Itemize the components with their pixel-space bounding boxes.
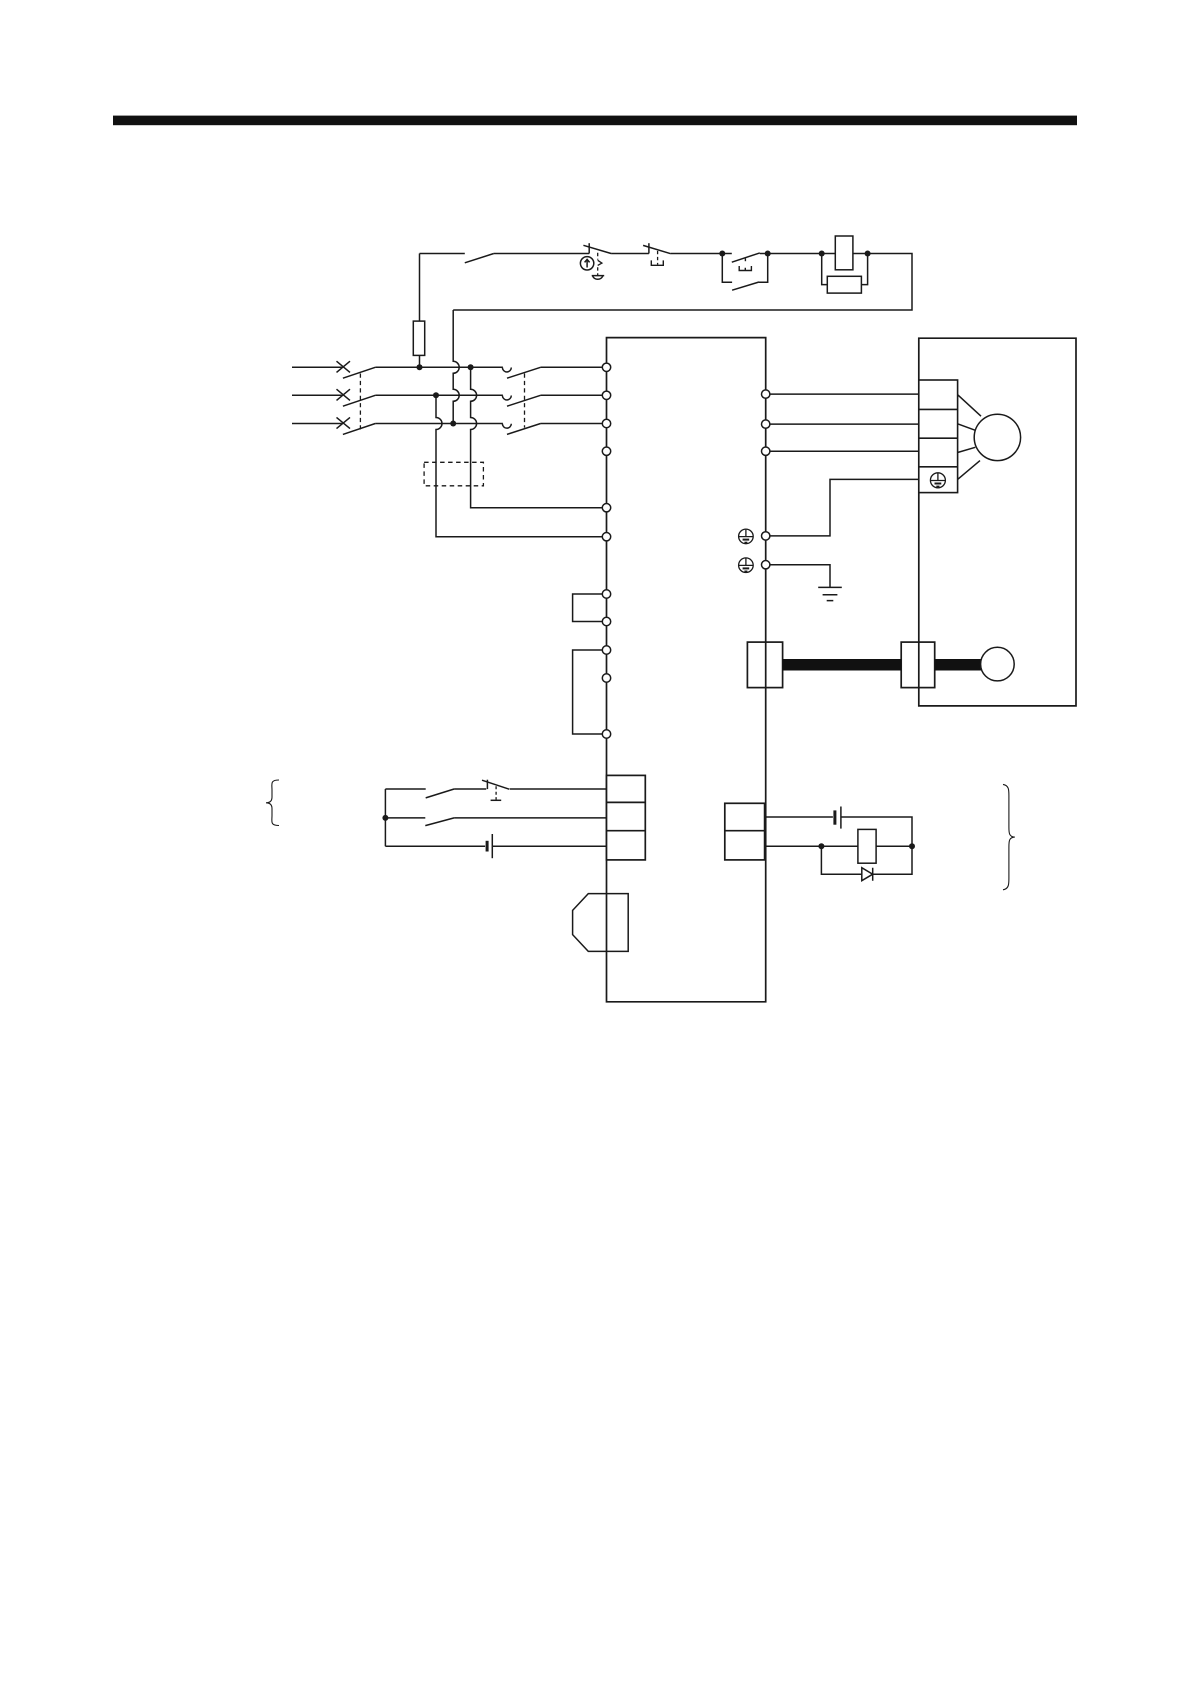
NFB pole 2 X symbol bbox=[337, 389, 351, 400]
input wire 1 segment 2 bbox=[454, 788, 486, 790]
phase L2 wire to amp bbox=[541, 394, 603, 396]
phase L2 input wire bbox=[292, 394, 342, 396]
MC pole 1 fixed contact bbox=[502, 368, 511, 372]
MC aux lower blade bbox=[732, 282, 759, 290]
wire: rail segment 2 bbox=[494, 253, 589, 255]
terminal U bbox=[762, 390, 770, 398]
contact 2 bar bbox=[648, 243, 650, 253]
motor fan-in line 4 bbox=[958, 461, 980, 480]
24V battery negative plate bbox=[833, 810, 836, 824]
NFB pole 3 X symbol bbox=[337, 417, 351, 428]
surge absorber bbox=[827, 276, 861, 293]
terminal L11 lower bbox=[602, 730, 610, 738]
servo amplifier outline bbox=[607, 338, 766, 1002]
emergency stop operator dashed link bbox=[597, 253, 599, 275]
MC aux lower branch wire bbox=[722, 254, 732, 283]
servo motor box bbox=[919, 338, 1076, 706]
NFB pole 2 blade bbox=[343, 395, 375, 406]
motor fan-in line 1 bbox=[958, 395, 981, 417]
node: junction dot on phase 3 bbox=[450, 421, 456, 427]
terminal L1 bbox=[602, 363, 610, 371]
terminal V bbox=[762, 420, 770, 428]
node: junction dot right rail bbox=[909, 843, 915, 849]
NFB pole 3 blade bbox=[343, 424, 375, 435]
node: junction dot phase 1 tap for L11 bbox=[468, 364, 474, 370]
wire U to motor bbox=[770, 393, 919, 395]
limit contact bar bbox=[486, 780, 488, 789]
MC aux contact upper blade bbox=[732, 253, 760, 262]
input wire 3 to CN1A bbox=[492, 845, 606, 847]
NFB pole 1 X symbol bbox=[337, 361, 351, 372]
connector CN3 box bbox=[607, 894, 629, 952]
top rule bar bbox=[113, 116, 1077, 126]
battery negative plate bbox=[486, 841, 489, 852]
battery positive plate bbox=[491, 834, 493, 858]
NFB pole 1 blade bbox=[343, 367, 375, 378]
fuse F1 bbox=[413, 321, 424, 355]
switch blade input 1 bbox=[426, 789, 454, 798]
diode branch wire bbox=[821, 846, 912, 874]
MC pole 3 blade bbox=[507, 424, 541, 435]
input wire 3 bbox=[385, 845, 485, 847]
output wire B right of relay bbox=[876, 845, 912, 847]
phase L3 input wire bbox=[292, 423, 342, 425]
input wire 1 bbox=[385, 788, 425, 790]
motor terminal block bbox=[919, 380, 958, 493]
connector CN1A box bbox=[607, 775, 646, 860]
node: junction dot right of MC aux block bbox=[765, 251, 771, 257]
emergency stop contact bar bbox=[588, 243, 590, 253]
wire: phase2 tap vertical with hop to L21 bbox=[436, 395, 602, 536]
connector CN3 plug bbox=[573, 894, 607, 952]
24V battery positive plate bbox=[840, 807, 842, 829]
encoder cable connector to encoder bbox=[935, 659, 982, 671]
MC aux operator bracket bbox=[739, 266, 751, 271]
wire: fuse to phase 1 bbox=[419, 355, 421, 367]
terminal L21 bbox=[602, 533, 610, 541]
node: junction dot on input bus bbox=[382, 815, 388, 821]
terminal L3 bbox=[602, 419, 610, 427]
node: junction dot left of coil bbox=[819, 251, 825, 257]
wire: top rail segment 1 bbox=[420, 253, 465, 255]
limit contact operator bbox=[495, 786, 497, 799]
earth ground symbol bbox=[818, 587, 842, 600]
terminal L11 bbox=[602, 504, 610, 512]
emergency stop mushroom head bbox=[592, 276, 605, 280]
terminal D bbox=[602, 617, 610, 625]
MC pole 3 fixed contact bbox=[502, 424, 511, 428]
encoder cable amp to connector bbox=[783, 659, 902, 671]
left brace bbox=[266, 780, 279, 826]
emergency stop spring-return chevron bbox=[598, 260, 602, 265]
terminal PE1 bbox=[762, 532, 770, 540]
motor fan-in line 3 bbox=[958, 447, 976, 452]
input bus vertical bbox=[384, 789, 386, 846]
wire PE to motor bbox=[770, 479, 919, 536]
wire: rail segment 4 bbox=[671, 253, 723, 255]
MC aux contact upper stub bbox=[722, 253, 732, 255]
emergency stop turn-release circle with arrow bbox=[580, 257, 593, 270]
PE symbol at amp PE2 bbox=[739, 558, 754, 573]
wire: rail segment 5 bbox=[768, 253, 822, 255]
node: junction dot right of coil bbox=[865, 251, 871, 257]
MC aux operator tick bbox=[744, 258, 746, 261]
terminal (unused) bbox=[602, 674, 610, 682]
input wire 2 bbox=[385, 817, 425, 819]
terminal N bbox=[602, 447, 610, 455]
relay RA coil bbox=[858, 829, 876, 863]
phase L3 wire after breaker bbox=[375, 423, 503, 425]
MC pole 2 fixed contact bbox=[502, 396, 511, 400]
NFB gang dashed line bbox=[359, 374, 361, 430]
contact 2 blade bbox=[643, 245, 671, 253]
MC pole 1 blade bbox=[507, 367, 541, 378]
terminal W bbox=[762, 447, 770, 455]
terminal P bbox=[602, 590, 610, 598]
wire V to motor bbox=[770, 423, 919, 425]
switch S1 blade bbox=[465, 254, 494, 263]
surge absorber branch wires bbox=[822, 254, 868, 285]
phase L2 wire after breaker bbox=[375, 394, 503, 396]
MC gang dashed line bbox=[524, 374, 526, 428]
phase L1 wire after breaker bbox=[375, 366, 503, 368]
MC aux contact upper right stub bbox=[760, 253, 768, 255]
node: junction dot phase 2 tap for L21 bbox=[433, 392, 439, 398]
wire: rail to right corner and return bbox=[453, 254, 912, 311]
wire PE2 to earth bbox=[770, 565, 830, 588]
wire: rail segment 3 bbox=[611, 253, 649, 255]
node: junction dot left of relay bbox=[818, 843, 824, 849]
diode bbox=[862, 868, 873, 881]
node: junction dot left of MC aux block bbox=[719, 251, 725, 257]
motor fan-in line 2 bbox=[958, 424, 975, 430]
MC pole 2 blade bbox=[507, 395, 541, 406]
jumper C-lower bbox=[573, 650, 603, 734]
motor winding circle bbox=[974, 414, 1020, 460]
encoder connector on motor bbox=[901, 642, 935, 688]
input wire 2 to CN1A bbox=[454, 817, 606, 819]
switch blade input 2 bbox=[425, 818, 454, 826]
right brace bbox=[1003, 784, 1015, 889]
node: junction dot fuse tap on phase 1 bbox=[417, 364, 423, 370]
MC aux lower right wire bbox=[759, 254, 768, 283]
contact 2 operator dashed link bbox=[657, 251, 659, 265]
PE symbol at amp PE1 bbox=[739, 529, 754, 544]
output wire A from CN1B bbox=[765, 816, 833, 818]
wire: control return vertical with hops bbox=[453, 310, 459, 424]
contact 2 operator bracket bbox=[651, 260, 663, 265]
wire: left corner vertical to fuse bbox=[419, 254, 421, 322]
connector CN2 box bbox=[747, 642, 782, 688]
phase L1 input wire bbox=[292, 366, 342, 368]
phase L1 wire to amp bbox=[541, 366, 603, 368]
connector CN1B box bbox=[725, 803, 765, 860]
terminal L2 bbox=[602, 391, 610, 399]
terminal C bbox=[602, 646, 610, 654]
emergency stop contact blade bbox=[583, 245, 611, 253]
jumper P-D bbox=[573, 594, 603, 622]
output wire B from CN1B bbox=[765, 845, 858, 847]
encoder circle bbox=[981, 647, 1015, 681]
MC coil bbox=[835, 236, 853, 270]
terminal PE2 bbox=[762, 561, 770, 569]
wire W to motor bbox=[770, 450, 919, 452]
input wire 1 to CN1A bbox=[510, 788, 607, 790]
output wire A to right rail bbox=[841, 817, 912, 846]
phase L3 wire to amp bbox=[541, 423, 603, 425]
limit contact blade bbox=[482, 780, 509, 789]
wire: phase1 tap vertical with hops to L11 bbox=[471, 367, 603, 507]
line filter dashed box bbox=[424, 462, 483, 486]
PE symbol in motor terminal block bbox=[930, 473, 945, 488]
wire through coil bbox=[822, 253, 868, 255]
